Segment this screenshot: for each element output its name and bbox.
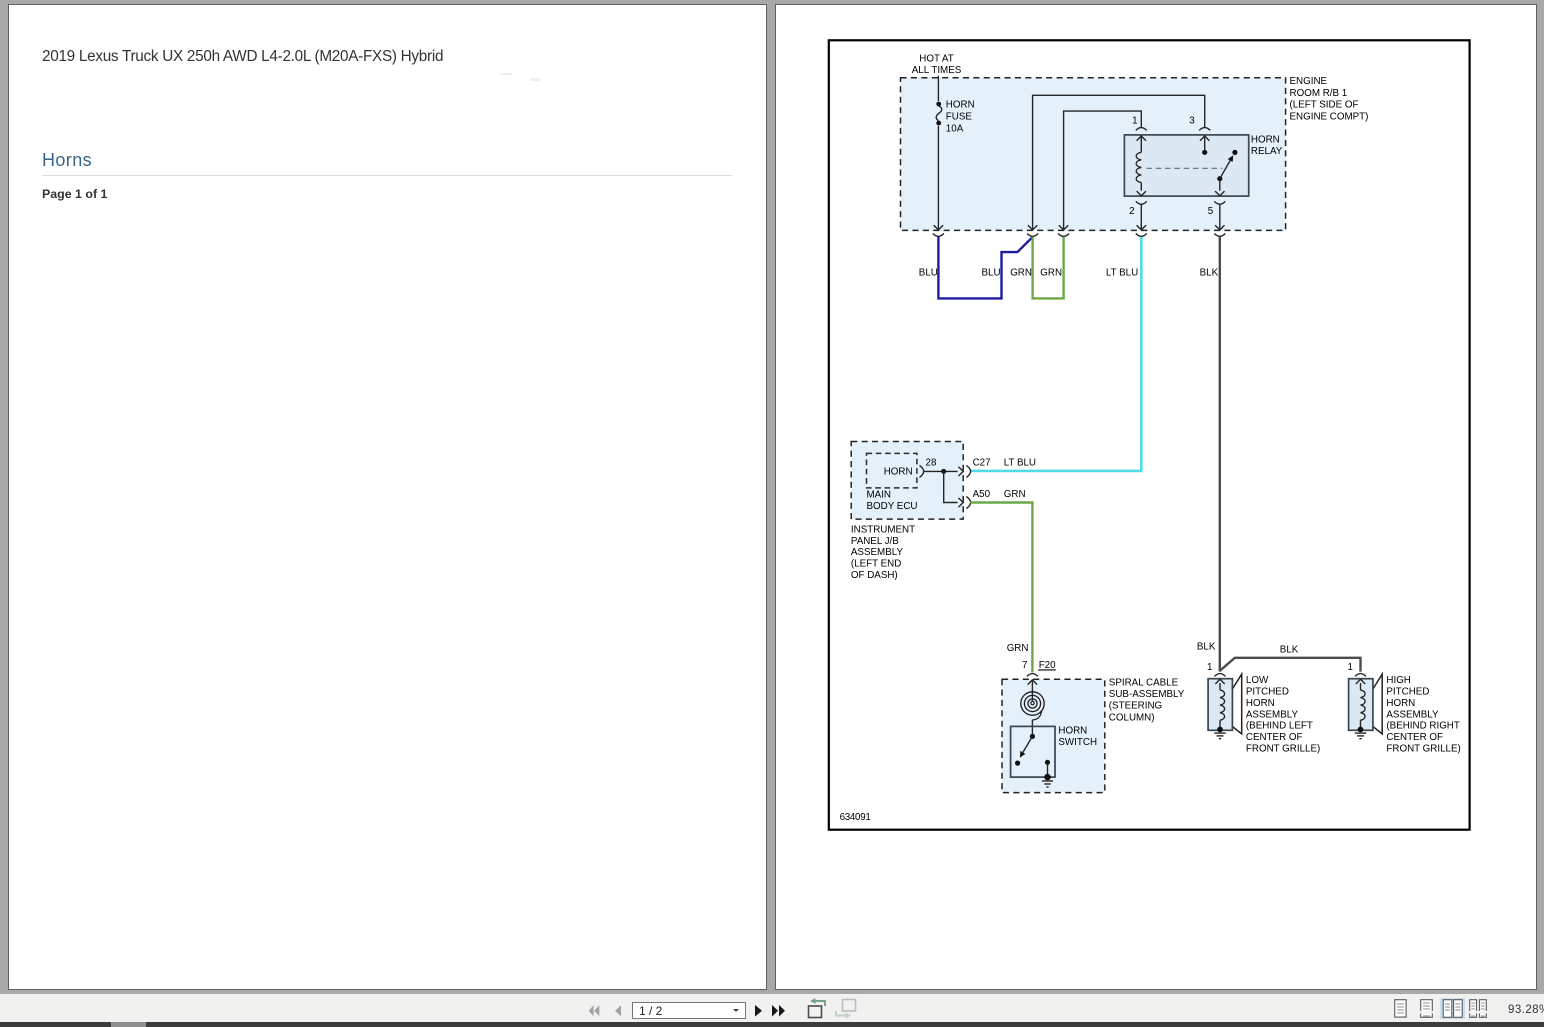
ground (low pitched horn)	[1214, 733, 1225, 739]
relay pin 5	[1208, 201, 1226, 230]
two page continuous layout icon	[1469, 999, 1487, 1018]
svg-text:COLUMN): COLUMN)	[1109, 712, 1155, 723]
last page button	[771, 1005, 786, 1017]
svg-text:3: 3	[1189, 116, 1195, 127]
svg-text:ASSEMBLY: ASSEMBLY	[1386, 709, 1439, 720]
first page button	[588, 1005, 600, 1017]
relay pin 3	[1189, 116, 1210, 141]
continuous layout icon	[1420, 999, 1433, 1018]
connector C27	[966, 457, 1036, 477]
previous view button	[804, 998, 828, 1019]
svg-text:28: 28	[926, 457, 937, 468]
svg-text:GRN: GRN	[1004, 489, 1026, 500]
svg-text:BLU: BLU	[982, 268, 1001, 279]
connector at box edge (LT BLU wire)	[1136, 234, 1147, 237]
svg-text:HORN: HORN	[1386, 698, 1415, 709]
svg-text:CENTER OF: CENTER OF	[1386, 732, 1443, 743]
svg-text:OF DASH): OF DASH)	[851, 570, 898, 581]
right page of PDF	[775, 4, 1537, 990]
svg-text:ASSEMBLY: ASSEMBLY	[851, 547, 904, 558]
relay pin 1	[1132, 116, 1147, 141]
label HOT AT ALL TIMES	[912, 53, 962, 76]
svg-text:CENTER OF: CENTER OF	[1246, 732, 1303, 743]
svg-text:PITCHED: PITCHED	[1246, 687, 1289, 698]
svg-text:HIGH: HIGH	[1386, 675, 1411, 686]
svg-text:GRN: GRN	[1007, 643, 1029, 654]
svg-text:(LEFT SIDE OF: (LEFT SIDE OF	[1290, 100, 1359, 111]
fuse HORN FUSE 10A	[936, 99, 974, 134]
wire: box edge to relay pin 1	[1059, 111, 1141, 230]
svg-text:634091: 634091	[840, 812, 871, 823]
svg-text:INSTRUMENT: INSTRUMENT	[851, 524, 915, 535]
svg-text:A50: A50	[973, 489, 991, 500]
connector F20 pin 7	[1022, 660, 1056, 685]
wire BLK (splice to high pitched horn)	[1220, 658, 1361, 672]
svg-text:(STEERING: (STEERING	[1109, 701, 1162, 712]
svg-text:C27: C27	[973, 457, 991, 468]
svg-text:2: 2	[1129, 206, 1134, 217]
svg-text:HORN: HORN	[1251, 134, 1280, 145]
connector at box edge (BLU wire)	[933, 234, 944, 237]
horn switch	[1011, 725, 1097, 777]
horn relay box	[1124, 134, 1282, 196]
next view button (disabled)	[834, 998, 860, 1021]
svg-text:GRN: GRN	[1040, 268, 1062, 279]
wire GRN (relay coil feed)	[1033, 237, 1064, 299]
two page layout icon (selected)	[1440, 998, 1465, 1019]
svg-text:ENGINE: ENGINE	[1290, 76, 1328, 87]
relay coil	[1136, 136, 1146, 196]
svg-text:SPIRAL CABLE: SPIRAL CABLE	[1109, 677, 1179, 688]
ground (horn switch)	[1042, 774, 1053, 787]
ground (high pitched horn)	[1355, 733, 1366, 739]
spiral cable coil	[1021, 680, 1044, 734]
svg-text:F20: F20	[1039, 660, 1056, 671]
svg-text:SUB-ASSEMBLY: SUB-ASSEMBLY	[1109, 689, 1185, 700]
svg-text:FUSE: FUSE	[946, 112, 973, 123]
wire: battery feed to fuse	[937, 76, 939, 101]
main body ECU inner box	[867, 453, 918, 512]
high pitched horn assembly	[1348, 662, 1461, 755]
svg-text:FRONT GRILLE): FRONT GRILLE)	[1386, 744, 1460, 755]
svg-text:FRONT GRILLE): FRONT GRILLE)	[1246, 744, 1320, 755]
svg-text:PITCHED: PITCHED	[1386, 687, 1429, 698]
connector at box edge (BLK wire)	[1214, 234, 1225, 237]
svg-text:HORN: HORN	[884, 467, 913, 478]
svg-text:1: 1	[1132, 116, 1137, 127]
wire BLU	[938, 237, 1032, 299]
svg-text:HORN: HORN	[1246, 698, 1275, 709]
previous page button	[614, 1005, 622, 1017]
svg-text:BLU: BLU	[919, 268, 938, 279]
svg-text:(BEHIND RIGHT: (BEHIND RIGHT	[1386, 721, 1459, 732]
svg-text:LT BLU: LT BLU	[1106, 268, 1138, 279]
page number combo box	[632, 1002, 746, 1019]
node: splice junction	[941, 469, 946, 474]
wire: box edge to relay pin 3	[1028, 95, 1205, 230]
svg-text:BLK: BLK	[1197, 641, 1216, 652]
connector at box edge (GRN wire, pin 3 feed)	[1027, 234, 1038, 237]
svg-text:(BEHIND LEFT: (BEHIND LEFT	[1246, 721, 1313, 732]
svg-text:7: 7	[1022, 660, 1027, 671]
svg-text:ALL TIMES: ALL TIMES	[912, 65, 962, 76]
ECU pin 28	[920, 457, 964, 477]
svg-text:MAIN: MAIN	[867, 490, 892, 501]
svg-text:ENGINE COMPT): ENGINE COMPT)	[1290, 111, 1369, 122]
wire: fuse to box edge	[937, 126, 939, 230]
svg-text:RELAY: RELAY	[1251, 146, 1283, 157]
svg-text:5: 5	[1208, 206, 1214, 217]
diagram frame	[829, 40, 1470, 829]
wire GRN (A50 to horn switch)	[970, 503, 1032, 673]
single page layout icon	[1394, 999, 1407, 1018]
wire LT BLU	[970, 237, 1141, 471]
svg-text:HORN: HORN	[1058, 725, 1087, 736]
relay pin 2	[1129, 201, 1147, 230]
svg-text:LT BLU: LT BLU	[1004, 457, 1036, 468]
svg-text:GRN: GRN	[1010, 268, 1032, 279]
svg-text:HOT AT: HOT AT	[919, 53, 953, 64]
svg-text:10A: 10A	[946, 123, 964, 134]
main body ECU / instrument panel J/B assembly box	[851, 442, 963, 582]
connector at box edge (GRN wire, pin 1 feed)	[1058, 234, 1069, 237]
svg-text:PANEL J/B: PANEL J/B	[851, 536, 899, 547]
svg-text:HORN: HORN	[946, 99, 975, 110]
low pitched horn assembly	[1207, 662, 1320, 755]
svg-text:SWITCH: SWITCH	[1058, 737, 1097, 748]
connector A50	[966, 489, 1025, 509]
wire BLK (relay to low pitched horn)	[1219, 237, 1221, 672]
relay switch	[1147, 136, 1238, 196]
engine room R/B 1 box	[901, 76, 1369, 230]
spiral cable sub-assembly box	[1002, 677, 1185, 792]
next page button	[754, 1005, 763, 1017]
svg-text:BODY ECU: BODY ECU	[867, 501, 918, 512]
svg-text:(LEFT END: (LEFT END	[851, 559, 901, 570]
svg-text:1: 1	[1348, 662, 1353, 673]
svg-text:BLK: BLK	[1280, 644, 1299, 655]
wire: junction to A50	[944, 471, 964, 507]
svg-text:BLK: BLK	[1200, 268, 1219, 279]
svg-text:1: 1	[1207, 662, 1212, 673]
svg-text:ROOM R/B 1: ROOM R/B 1	[1290, 88, 1348, 99]
svg-text:LOW: LOW	[1246, 675, 1269, 686]
svg-text:ASSEMBLY: ASSEMBLY	[1246, 709, 1299, 720]
left page of PDF	[8, 4, 767, 990]
